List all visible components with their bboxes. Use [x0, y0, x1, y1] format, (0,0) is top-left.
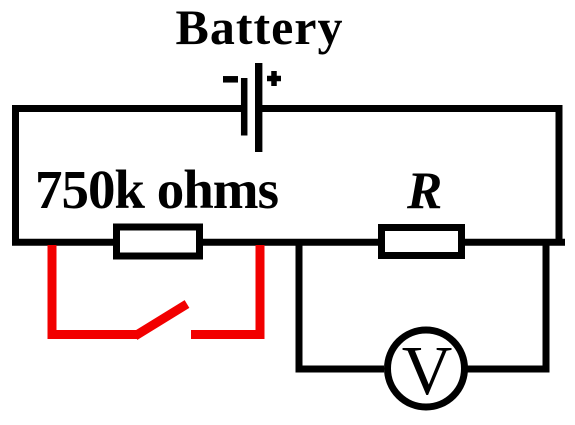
svg-text:750k ohms: 750k ohms — [35, 159, 279, 220]
svg-text:Battery: Battery — [176, 0, 343, 55]
svg-text:R: R — [406, 162, 442, 220]
svg-text:V: V — [402, 333, 453, 410]
